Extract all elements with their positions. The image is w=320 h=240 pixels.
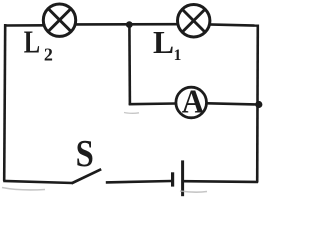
svg-text:1: 1 [174, 47, 182, 64]
svg-text:S: S [76, 132, 94, 175]
svg-text:L: L [153, 25, 174, 60]
svg-text:2: 2 [44, 44, 53, 64]
svg-text:A: A [182, 83, 205, 120]
svg-text:L: L [24, 26, 40, 61]
